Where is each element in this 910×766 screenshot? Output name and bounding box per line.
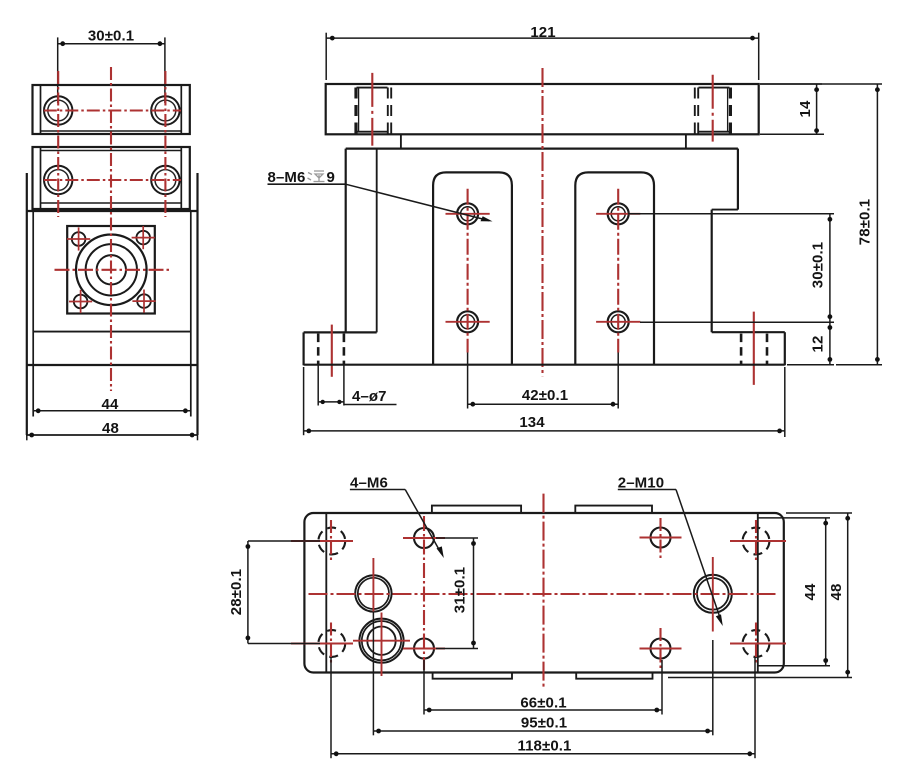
- slot hole lower-left inner: [461, 315, 475, 329]
- slot hole upper-left outer: [457, 203, 478, 224]
- centerline left slot vertical: [467, 189, 469, 353]
- label 4-M6 leader: [405, 490, 441, 554]
- dimension 66 extension left: [423, 660, 425, 715]
- plate left inner edge: [325, 513, 327, 673]
- dimension 44 dot right: [183, 408, 188, 413]
- svg-text:30±0.1: 30±0.1: [88, 28, 134, 45]
- second block outline: [33, 147, 190, 209]
- dimension 118 line: [331, 753, 755, 755]
- left hidden hole dashed line b1: [387, 88, 389, 134]
- slot hole lower-right outer: [608, 311, 629, 332]
- dimension 44 line: [33, 410, 191, 412]
- foot left outer edge: [303, 332, 305, 365]
- foot left hidden hole line a: [317, 334, 320, 365]
- label 8-M6 leader: [346, 184, 489, 220]
- label 2-M10 underline: [618, 489, 676, 491]
- dimension 30±0.1 right extension bottom: [640, 321, 834, 323]
- crosshair upper-left hole: [446, 213, 490, 215]
- corner hole top-left: [318, 528, 345, 555]
- label 8-M6 leader arrowhead: [481, 216, 493, 221]
- body base line: [27, 364, 198, 366]
- crosshair corner top-right horizontal: [730, 540, 786, 542]
- centerline right holes vertical top: [659, 518, 661, 560]
- label depth glyph (blurred CJK char): [308, 171, 325, 182]
- label 8-M6 underline: [268, 183, 346, 185]
- dimension 48 dot left: [29, 433, 34, 438]
- second block hole right outer: [151, 166, 179, 194]
- dimension 44 right extension top: [758, 517, 830, 519]
- flange outer circle: [76, 234, 147, 305]
- flange bolt hole top-left: [72, 232, 86, 246]
- corner hole bottom-left: [318, 630, 345, 657]
- dimension 44 right line: [825, 518, 827, 666]
- dimension 121 dot right: [750, 36, 755, 41]
- centerline right plate hole: [712, 75, 714, 142]
- label 4-M6 leader arrowhead: [437, 546, 444, 558]
- dimension 42 extension left: [467, 353, 469, 409]
- crosshair center circle vertical: [372, 558, 374, 612]
- dimension 30±0.1 right dot top: [828, 217, 833, 222]
- label 4-dia7 underline: [344, 404, 397, 406]
- label 4-dia7 extension b: [343, 365, 345, 406]
- centerline corner left top vertical: [330, 520, 332, 562]
- centerline bottom view vertical: [542, 494, 544, 689]
- dimension 44 right dot top: [823, 521, 828, 526]
- dimension 30±0.1 extension line left: [57, 37, 59, 103]
- bolt hole crosshair bottom-right: [132, 290, 155, 313]
- dimension 31 dot bottom: [471, 641, 476, 646]
- dimension 78±0.1 line: [876, 84, 878, 365]
- top tab right: [575, 506, 652, 513]
- crosshair M6 bottom horizontal: [403, 648, 445, 650]
- lower boss circle middle: [362, 621, 401, 660]
- centerline right holes vertical bottom: [659, 628, 661, 670]
- crosshair lower boss vertical: [381, 613, 383, 677]
- bottom tab left: [433, 673, 512, 679]
- body left outer edge: [26, 173, 28, 435]
- body right outer edge: [196, 173, 198, 435]
- top plate outline: [326, 84, 759, 134]
- top block hole left outer: [44, 96, 72, 124]
- dimension 14 dot bottom: [814, 128, 819, 133]
- dimension 30±0.1 right dot bottom: [828, 314, 833, 319]
- dimension 95 dot left: [376, 729, 381, 734]
- left hidden hole bore left: [358, 88, 360, 132]
- centerline right slot vertical: [617, 189, 619, 353]
- foot right hidden hole line a: [740, 334, 743, 365]
- top block hole right outer: [151, 96, 179, 124]
- bottom tab right: [576, 673, 652, 679]
- dimension 66 line: [424, 709, 662, 711]
- dimension 30±0.1 dot left: [60, 41, 65, 46]
- crosshair right inner top horizontal: [640, 537, 682, 539]
- bolt hole crosshair top-left: [67, 227, 90, 250]
- label 4-dia7 dot a: [321, 400, 325, 404]
- centerline horizontal flange: [55, 269, 170, 271]
- right hidden hole bore right: [727, 88, 729, 132]
- dimension 31 line: [473, 538, 475, 649]
- dimension 44 right dot bottom: [823, 658, 828, 663]
- slot hole lower-right inner: [611, 315, 625, 329]
- dimension 30±0.1 dot right: [158, 41, 163, 46]
- dimension 42 extension right: [617, 353, 619, 409]
- left hidden hole dashed line a: [354, 88, 357, 134]
- slot hole lower-left outer: [457, 311, 478, 332]
- bolt hole crosshair bottom-left: [69, 290, 92, 313]
- centerline bottom view horizontal: [309, 593, 776, 595]
- svg-text:30±0.1: 30±0.1: [810, 242, 827, 288]
- dimension 134 dot right: [777, 429, 782, 434]
- dimension 14 extension top: [760, 83, 822, 85]
- dimension 78±0.1 dot top: [875, 87, 880, 92]
- dimension 28 extension top: [248, 540, 320, 542]
- flange bolt hole bottom-right: [137, 294, 151, 308]
- dimension 14 line: [816, 84, 818, 134]
- dimension 95 line: [373, 730, 712, 732]
- dimension 28 line: [247, 541, 249, 644]
- crosshair corner top-left horizontal: [291, 540, 353, 542]
- svg-text:4–ø7: 4–ø7: [352, 388, 387, 405]
- dimension 48 right line: [847, 513, 849, 678]
- left hidden hole dashed line b2: [390, 88, 392, 134]
- svg-text:134: 134: [519, 414, 545, 431]
- body top edge: [346, 148, 738, 150]
- right hidden hole dashed line b: [729, 88, 732, 134]
- neck left edge: [400, 134, 402, 148]
- dimension 48 right extension top: [786, 512, 852, 514]
- top block outline: [33, 85, 190, 134]
- dimension 30±0.1 line: [58, 43, 165, 45]
- second block hole left outer: [44, 166, 72, 194]
- dimension 134 dot left: [306, 429, 311, 434]
- body right outer edge: [737, 149, 739, 210]
- center circle outer: [355, 575, 391, 611]
- svg-text:42±0.1: 42±0.1: [522, 387, 568, 404]
- M10 circle inner: [697, 578, 729, 610]
- svg-text:48: 48: [102, 420, 119, 437]
- centerline corner left bottom vertical: [330, 623, 332, 665]
- dimension 14 extension bottom: [760, 133, 824, 135]
- top block hole right inner: [155, 100, 176, 121]
- bottom view plate outline: [304, 513, 783, 673]
- top block hole left inner: [48, 100, 69, 121]
- svg-text:44: 44: [102, 396, 119, 413]
- svg-text:12: 12: [810, 336, 827, 353]
- centerline M6 holes vertical: [423, 516, 425, 670]
- foot right hidden hole line b: [766, 334, 769, 365]
- left slot outline: [433, 172, 512, 364]
- dimension 78±0.1 dot bottom: [875, 357, 880, 362]
- label 4-dia7 extension a: [317, 365, 319, 406]
- crosshair corner bottom-left horizontal: [291, 643, 353, 645]
- dimension 66 dot left: [427, 708, 432, 713]
- dimension 48 dot right: [190, 433, 195, 438]
- svg-text:14: 14: [797, 100, 814, 117]
- base bottom edge: [304, 364, 785, 366]
- dimension 42 line: [468, 403, 619, 405]
- M6 hole bottom: [414, 639, 434, 659]
- centerline corner right top vertical: [755, 520, 757, 562]
- dimension 95 extension right: [712, 640, 714, 735]
- flange middle circle: [86, 244, 137, 295]
- svg-text:31±0.1: 31±0.1: [452, 567, 469, 613]
- svg-text:66±0.1: 66±0.1: [520, 694, 566, 711]
- top block inner bottom edge: [41, 130, 182, 132]
- dimension 44 dot left: [36, 408, 41, 413]
- dimension 118 extension left: [330, 658, 332, 758]
- right inner hole top: [651, 528, 671, 548]
- svg-text:95±0.1: 95±0.1: [521, 714, 567, 731]
- dimension 121 extension left: [325, 33, 327, 80]
- dimension 12 dot top: [828, 325, 833, 330]
- second block hole left inner: [48, 170, 69, 191]
- center circle inner: [358, 578, 389, 609]
- dimension 118 dot right: [747, 751, 752, 756]
- crosshair right inner bottom horizontal: [640, 648, 682, 650]
- right hidden hole dashed line a1: [694, 88, 696, 134]
- crosshair M10 vertical: [712, 557, 714, 632]
- bolt hole crosshair top-right: [132, 226, 155, 249]
- dimension 95 dot right: [705, 729, 710, 734]
- foot right top edge: [712, 331, 785, 333]
- label 4-dia7 dot b: [337, 400, 341, 404]
- centerline horizontal second hole row: [44, 179, 181, 181]
- dimension 48 line / body bottom: [26, 434, 198, 436]
- label 4-M6 underline: [350, 489, 405, 491]
- svg-text:44: 44: [802, 583, 819, 600]
- slot hole upper-right inner: [611, 207, 625, 221]
- corner hole top-right: [743, 528, 770, 555]
- second block hole right inner: [155, 170, 176, 191]
- dimension 42 dot left: [470, 402, 475, 407]
- body top edge: [27, 210, 198, 212]
- second block inner bottom edge: [41, 202, 182, 204]
- slot hole upper-left inner: [461, 207, 475, 221]
- body right step edge: [712, 209, 738, 211]
- lower boss circle outer: [359, 619, 403, 663]
- label 2-M10 leader: [676, 490, 721, 621]
- dimension 31 dot top: [471, 541, 476, 546]
- body left inner edge: [376, 149, 378, 333]
- dimension 66 extension right: [661, 660, 663, 715]
- crosshair upper-right hole: [596, 213, 640, 215]
- dimension 30±0.1 extension line right: [164, 37, 166, 103]
- right hidden hole bottom edge: [699, 131, 730, 133]
- second block inner edge right: [180, 147, 182, 209]
- dimension 30±0.1 right line: [829, 214, 831, 322]
- body step line: [33, 331, 191, 333]
- foot left hidden hole line b: [343, 334, 346, 365]
- crosshair corner bottom-right horizontal: [730, 643, 786, 645]
- centerline front view vertical: [541, 68, 543, 376]
- dimension 48 extension right: [197, 420, 199, 440]
- left hidden hole bottom edge: [357, 131, 388, 133]
- svg-text:48: 48: [828, 584, 845, 601]
- dimension 134 extension right: [784, 367, 786, 437]
- crosshair lower-left hole: [446, 321, 490, 323]
- dimension 44 right extension bottom: [758, 665, 830, 667]
- centerline vertical main: [110, 67, 112, 391]
- centerline foot left hole: [331, 325, 333, 377]
- plate right inner edge: [757, 513, 759, 673]
- right hidden hole dashed line a2: [697, 88, 699, 134]
- centerline corner right bottom vertical: [755, 623, 757, 665]
- centerline vertical right holes: [164, 71, 166, 217]
- label 4-dia7 dim line: [318, 401, 344, 403]
- dimension 121 dot left: [330, 36, 335, 41]
- dimension 12 extension bottom: [787, 364, 834, 366]
- neck right edge: [685, 134, 687, 148]
- flange bolt hole bottom-left: [74, 295, 88, 309]
- body right inner edge: [190, 211, 192, 417]
- crosshair lower-right hole: [596, 321, 640, 323]
- body right inner edge: [711, 210, 713, 333]
- dimension 12 dot bottom: [828, 357, 833, 362]
- top tab left: [432, 506, 521, 513]
- dimension 28 dot top: [246, 544, 251, 549]
- svg-text:118±0.1: 118±0.1: [518, 737, 572, 754]
- dimension 134 extension left: [303, 367, 305, 435]
- dimension 48 right extension bottom: [668, 677, 852, 679]
- centerline foot right hole: [753, 312, 755, 385]
- dimension 134 line: [304, 430, 785, 432]
- flange bolt hole top-right: [136, 231, 150, 245]
- dimension 118 extension right: [754, 658, 756, 758]
- dimension 28 dot bottom: [246, 636, 251, 641]
- dimension 121 extension right: [758, 33, 760, 80]
- second block inner top edge: [41, 150, 182, 152]
- foot left top edge: [304, 331, 377, 333]
- dimension 95 extension left: [372, 612, 374, 735]
- dimension 118 dot left: [334, 751, 339, 756]
- dimension 12 line: [829, 322, 831, 365]
- crosshair M6 top horizontal: [403, 537, 445, 539]
- dimension 30±0.1 right extension top: [628, 213, 834, 215]
- right hidden hole top edge: [699, 87, 730, 89]
- right inner hole bottom: [651, 639, 671, 659]
- dimension 48 right dot top: [845, 516, 850, 521]
- crosshair lower boss horizontal: [353, 640, 410, 642]
- dimension 31 extension top: [436, 537, 478, 539]
- dimension 31 extension bottom: [436, 648, 478, 650]
- dimension 121 line: [326, 37, 759, 39]
- dimension 42 dot right: [611, 402, 616, 407]
- centerline vertical left holes: [57, 71, 59, 217]
- svg-text:78±0.1: 78±0.1: [857, 199, 874, 245]
- svg-text:121: 121: [530, 24, 555, 41]
- top block inner edge left: [40, 85, 42, 134]
- top block inner edge right: [180, 85, 182, 134]
- second block inner edge left: [40, 147, 42, 209]
- left hidden hole top edge: [357, 87, 388, 89]
- dimension 66 dot right: [654, 708, 659, 713]
- lower boss circle inner: [367, 627, 395, 655]
- body left inner edge: [32, 211, 34, 417]
- M6 hole top: [414, 528, 434, 548]
- dimension 78±0.1 extension top: [760, 83, 882, 85]
- corner hole bottom-right: [743, 630, 770, 657]
- dimension 48 extension left: [26, 420, 28, 440]
- right slot outline: [575, 172, 654, 364]
- M10 circle outer: [694, 575, 732, 613]
- centerline left plate hole: [371, 73, 373, 146]
- body left outer edge: [345, 149, 347, 333]
- dimension 28 extension bottom: [248, 643, 320, 645]
- centerline horizontal top hole row: [44, 109, 181, 111]
- dimension 48 right dot bottom: [845, 670, 850, 675]
- flange inner circle: [97, 255, 126, 284]
- foot right outer edge: [784, 332, 786, 365]
- slot hole upper-right outer: [608, 203, 629, 224]
- dimension 14 dot top: [814, 87, 819, 92]
- flange square: [67, 226, 155, 314]
- label 2-M10 leader arrowhead: [716, 614, 723, 626]
- dimension 78±0.1 extension bottom: [836, 364, 882, 366]
- svg-text:28±0.1: 28±0.1: [228, 569, 245, 615]
